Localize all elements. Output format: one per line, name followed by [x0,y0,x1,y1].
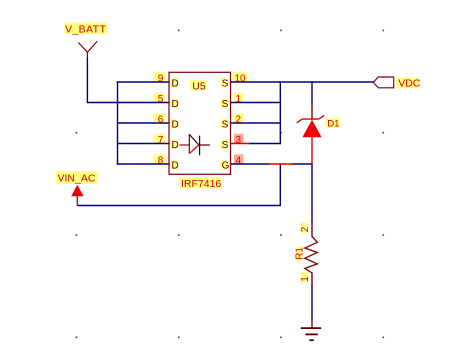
svg-text:S: S [222,99,229,110]
svg-text:S: S [222,140,229,151]
svg-text:10: 10 [235,74,247,85]
svg-text:D: D [172,99,179,110]
svg-text:S: S [222,120,229,131]
svg-text:1: 1 [236,94,242,105]
svg-text:5: 5 [158,94,164,105]
svg-text:8: 8 [158,156,164,167]
svg-text:7: 7 [158,135,164,146]
svg-text:D: D [172,120,179,131]
svg-text:2: 2 [300,226,311,232]
svg-text:R1: R1 [295,247,306,260]
svg-text:4: 4 [236,156,242,167]
svg-text:9: 9 [158,74,164,85]
svg-text:D1: D1 [327,118,339,129]
svg-text:VIN_AC: VIN_AC [58,173,96,185]
svg-text:1: 1 [300,276,311,282]
svg-text:2: 2 [236,115,242,126]
svg-text:IRF7416: IRF7416 [181,178,221,190]
svg-text:D: D [172,161,179,172]
svg-text:D: D [172,140,179,151]
svg-text:S: S [222,79,229,90]
svg-text:V_BATT: V_BATT [65,23,106,35]
svg-text:G: G [222,161,230,172]
svg-text:VDC: VDC [398,78,421,90]
svg-text:D: D [172,79,179,90]
svg-text:U5: U5 [192,81,206,93]
svg-text:3: 3 [236,135,242,146]
svg-text:6: 6 [158,115,164,126]
